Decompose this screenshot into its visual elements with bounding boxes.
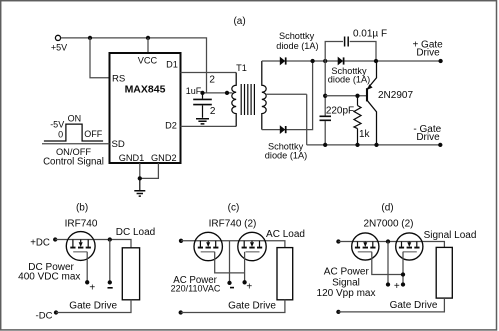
wire GND1 lead: [139, 163, 141, 178]
label (a): [233, 16, 245, 27]
svg-text:2: 2: [209, 74, 215, 85]
svg-text:(b): (b): [76, 202, 88, 213]
diode D1 Schottky top: [280, 57, 286, 66]
wire +5V rail: [61, 38, 207, 93]
wire GND2 lead: [140, 163, 159, 178]
svg-text:GND2: GND2: [151, 153, 177, 163]
wire + rail: [262, 60, 441, 62]
label Gate Drive b: [69, 301, 117, 312]
junction dot GND: [138, 176, 142, 180]
svg-text:2N2907: 2N2907: [378, 90, 413, 101]
svg-text:0: 0: [58, 129, 63, 139]
resistor DC load: [116, 227, 155, 300]
junction dot 1uF node: [200, 91, 204, 95]
capacitor C3 220pF: [320, 105, 355, 145]
transistor Q4 IRF740: [238, 232, 266, 260]
terminal c input: [179, 239, 183, 243]
svg-text:diode (1A): diode (1A): [265, 151, 307, 161]
terminal c gates plus: [242, 280, 252, 292]
terminal b source minus: [108, 280, 113, 288]
wire c gate1 lead: [215, 252, 245, 273]
junction dot R1 top: [355, 94, 359, 98]
junction dot b source: [108, 237, 112, 241]
svg-text:Control Signal: Control Signal: [43, 157, 104, 168]
svg-text:-5V: -5V: [50, 120, 64, 130]
svg-text:Drive: Drive: [416, 48, 440, 59]
terminal + gate drive: [412, 39, 443, 63]
svg-text:diode (1A): diode (1A): [328, 75, 370, 85]
svg-text:+5V: +5V: [51, 43, 67, 53]
svg-text:ON: ON: [68, 113, 82, 123]
wire b gate drive: [56, 300, 131, 313]
wire C2 branch: [325, 42, 376, 62]
label AC Power 220/110VAC: [171, 275, 221, 294]
svg-text:220/110VAC: 220/110VAC: [171, 284, 221, 294]
junction dot d gates: [401, 272, 405, 276]
wire D1: [181, 72, 237, 74]
transistor Q5 2N7000: [352, 233, 379, 260]
wire d gate1 lead: [372, 252, 403, 275]
junction dot emitter node: [374, 59, 378, 63]
svg-text:1uF: 1uF: [186, 86, 202, 96]
svg-text:Schottky: Schottky: [279, 31, 315, 41]
resistor R1 1k: [354, 96, 371, 145]
capacitor C1 1uF: [186, 86, 212, 105]
transistor Q1 2N2907: [367, 61, 413, 145]
wire VCC lead: [147, 38, 149, 53]
wire d gate drive: [338, 298, 444, 312]
svg-text:+DC: +DC: [30, 238, 50, 249]
label IRF740: [65, 218, 98, 229]
svg-text:120 Vpp max: 120 Vpp max: [317, 288, 376, 299]
svg-text:IRF740 (2): IRF740 (2): [209, 218, 257, 229]
svg-text:RS: RS: [112, 73, 125, 84]
svg-text:400 VDC max: 400 VDC max: [18, 271, 80, 282]
wire b gate lead: [86, 252, 88, 282]
wire d main: [338, 242, 444, 248]
junction dot collector: [374, 143, 378, 147]
wire 220pF branch upper: [324, 61, 326, 116]
svg-text:Drive: Drive: [416, 132, 440, 143]
control signal waveform: [44, 124, 103, 141]
label turns 2 upper: [209, 74, 215, 85]
terminal +5V: [51, 35, 67, 52]
svg-text:Gate Drive: Gate Drive: [228, 301, 276, 312]
svg-text:(a): (a): [233, 16, 245, 27]
svg-text:D1: D1: [166, 60, 178, 70]
wire d mid drop: [387, 242, 389, 285]
terminal +DC: [30, 237, 57, 248]
wire c mid drop: [229, 241, 231, 283]
svg-text:DC Load: DC Load: [116, 227, 155, 238]
svg-text:(c): (c): [228, 202, 240, 213]
svg-text:T1: T1: [236, 63, 247, 73]
svg-text:2N7000 (2): 2N7000 (2): [363, 218, 413, 229]
label Schottky diode (1A) top: [276, 31, 318, 51]
wire b main: [55, 240, 131, 248]
transistor Q6 2N7000: [396, 233, 423, 260]
svg-text:220pF: 220pF: [326, 105, 354, 116]
IC U1 MAX845: [110, 53, 181, 163]
label Gate Drive d: [390, 300, 438, 311]
junction dot d mid: [386, 239, 390, 243]
label DC Power 400 VDC max: [18, 262, 80, 282]
terminal d mid: [386, 282, 390, 286]
label Schottky diode (1A) series: [328, 66, 370, 85]
svg-text:GND1: GND1: [119, 153, 145, 163]
terminal d input: [336, 239, 340, 243]
svg-text:OFF: OFF: [84, 129, 102, 139]
label Schottky diode (1A) bottom: [265, 141, 307, 160]
svg-text:+: +: [394, 281, 400, 292]
wire RS branch: [90, 38, 110, 78]
label ON/OFF control signal: [43, 113, 104, 167]
transistor Q2 IRF740: [66, 232, 95, 261]
svg-text:-DC: -DC: [36, 310, 53, 321]
svg-text:+: +: [246, 282, 252, 293]
diode D3 Schottky series: [338, 57, 344, 66]
junction dot C2 branch left: [323, 59, 327, 63]
junction dot R1 bottom: [355, 143, 359, 147]
svg-text:VCC: VCC: [138, 56, 158, 66]
label (d): [381, 202, 393, 213]
terminal d gates: [394, 281, 405, 292]
wire D2: [181, 125, 237, 127]
svg-text:0.01µ F: 0.01µ F: [353, 29, 387, 40]
svg-text:AC Load: AC Load: [266, 229, 305, 240]
label AC Power Signal 120 Vpp max: [317, 267, 376, 299]
terminal c gate drive: [179, 310, 183, 314]
wire tap drop: [306, 94, 308, 145]
wire primary center tap: [203, 92, 233, 94]
junction dot base node: [323, 94, 327, 98]
label (c): [228, 202, 240, 213]
junction dot VCC branch: [146, 36, 150, 40]
junction dot center tap: [225, 91, 229, 95]
svg-text:1k: 1k: [359, 129, 371, 140]
wire d gate2 lead: [402, 252, 404, 285]
junction dot RS branch: [88, 36, 92, 40]
wire c main: [181, 241, 285, 248]
svg-text:D2: D2: [165, 121, 177, 131]
terminal c source minus: [227, 281, 234, 288]
svg-text:ON/OFF: ON/OFF: [56, 147, 91, 157]
wire b source drop: [109, 240, 111, 283]
wire - rail: [307, 144, 441, 146]
svg-text:IRF740: IRF740: [65, 218, 98, 229]
label turns 2 lower: [210, 106, 216, 117]
terminal -DC: [36, 310, 59, 321]
svg-text:Signal: Signal: [332, 277, 360, 288]
transformer T1: [232, 61, 266, 130]
svg-text:+: +: [89, 282, 95, 293]
ground at GND pins: [134, 178, 145, 196]
label 2N7000 (2): [363, 218, 413, 229]
svg-text:SD: SD: [112, 139, 125, 150]
svg-text:MAX845: MAX845: [125, 84, 166, 96]
svg-text:diode (1A): diode (1A): [276, 41, 318, 51]
terminal b gate plus: [85, 280, 95, 293]
wire SD input: [42, 143, 110, 145]
ground at C1: [196, 105, 209, 124]
wire secondary bottom to rail: [262, 61, 313, 130]
svg-text:Gate Drive: Gate Drive: [69, 301, 117, 312]
wire base: [325, 95, 366, 97]
wire c gate2 lead: [244, 252, 246, 282]
junction dot rectifier output: [310, 59, 314, 63]
resistor AC load: [266, 229, 305, 300]
wire c gate drive: [181, 300, 285, 313]
label (b): [76, 202, 88, 213]
svg-text:Signal Load: Signal Load: [424, 230, 477, 241]
wire secondary center tap: [266, 93, 307, 95]
terminal - gate drive: [413, 124, 442, 147]
capacitor C2 0.01uF: [345, 29, 387, 47]
junction dot C3 bottom: [323, 143, 327, 147]
label Gate Drive c: [228, 301, 276, 312]
svg-text:Gate Drive: Gate Drive: [390, 300, 438, 311]
svg-text:2: 2: [210, 106, 216, 117]
diode D2 Schottky bottom: [280, 125, 286, 134]
svg-text:(d): (d): [381, 202, 393, 213]
terminal d gate drive: [336, 310, 340, 314]
svg-text:AC Power: AC Power: [324, 267, 370, 278]
resistor Signal load: [424, 230, 477, 298]
transistor Q3 IRF740: [194, 232, 222, 260]
label IRF740 (2): [209, 218, 257, 229]
